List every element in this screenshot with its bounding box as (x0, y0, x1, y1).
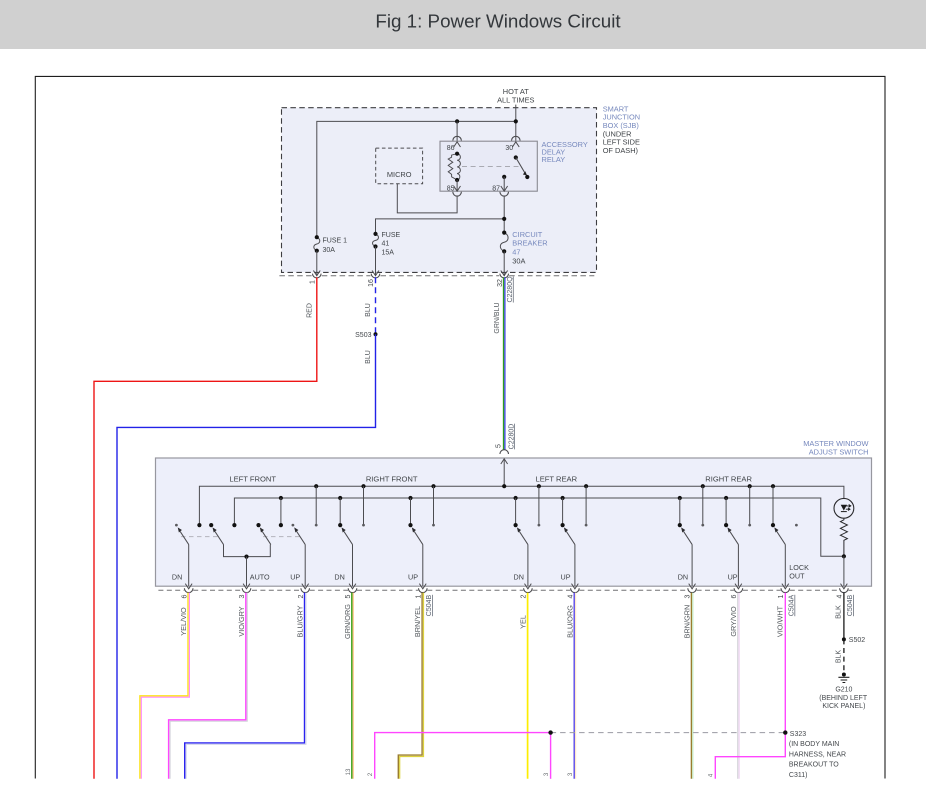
pin 87 arrow (501, 186, 508, 191)
node S323 left (548, 730, 552, 734)
svg-text:RIGHT REAR: RIGHT REAR (705, 475, 752, 484)
node: contact RR DN (678, 523, 682, 527)
svg-text:2: 2 (521, 594, 528, 598)
node: feed junction on upper rail (502, 484, 506, 488)
svg-text:Fig 1: Power Windows Circuit: Fig 1: Power Windows Circuit (375, 10, 621, 31)
svg-text:3: 3 (685, 594, 692, 598)
svg-text:16: 16 (368, 279, 375, 287)
wire VIO/GRY (violet + grey stripe) (169, 593, 246, 779)
switch blade LF AUTO 2 (260, 527, 271, 544)
circuit breaker label (512, 230, 547, 265)
relay coil resistor (left zigzag) (448, 154, 457, 180)
circuit breaker 47 element (500, 233, 508, 252)
node: lower rail junction RR UP (724, 496, 728, 500)
splice S503 (374, 332, 378, 336)
svg-text:MICRO: MICRO (387, 170, 412, 179)
wire: fuse 1 to connector pin 1 (316, 251, 318, 276)
wire: branch from bus to relay pin 86 (456, 121, 458, 153)
svg-text:YEL/VIO: YEL/VIO (179, 607, 188, 636)
node: fuse 1 top (315, 235, 319, 239)
svg-text:C504B: C504B (847, 594, 854, 616)
node: open contact RF3 (432, 524, 435, 527)
relay blade end node (525, 175, 529, 179)
svg-text:CIRCUIT: CIRCUIT (512, 230, 542, 239)
wire: dropper lower rail RR UP contact (725, 498, 727, 525)
svg-text:GRN/BLU: GRN/BLU (494, 302, 501, 333)
output wire RR DN (691, 545, 693, 587)
switch blade RF UP (412, 527, 423, 544)
connector arcs at master switch bottom (184, 588, 193, 592)
svg-text:6: 6 (181, 594, 188, 598)
wire BRN/YEL (brown + yellow stripe) (398, 593, 422, 779)
svg-text:FUSE 1: FUSE 1 (323, 238, 348, 245)
node: lower rail junction RF UP (408, 496, 412, 500)
node: lower rail junction LR DN (514, 496, 518, 500)
mechanical link dashes LF (181, 536, 219, 538)
output wire LF DN (188, 545, 190, 587)
output wire AUTO (246, 557, 248, 587)
output wire LR UP (574, 545, 576, 587)
node: fuse 41 bottom (373, 244, 377, 248)
relay coil winding (right arcs) (457, 154, 460, 180)
diagram frame border (35, 76, 885, 778)
svg-text:5: 5 (345, 594, 352, 598)
node: upper rail junction RF2 (361, 484, 365, 488)
relay U1 box (440, 141, 537, 191)
wire: SJB internal supply bus (317, 121, 516, 237)
svg-text:ALL TIMES: ALL TIMES (497, 96, 534, 105)
power label HOT AT ALL TIMES (497, 87, 534, 104)
relay mechanical dashed link (462, 166, 519, 168)
wire GRN/ORG (green + orange stripe) (351, 593, 353, 779)
svg-text:DN: DN (514, 572, 524, 581)
master switch entry arc (500, 450, 509, 454)
fuse 1 element (314, 237, 320, 251)
wire: branch to fuse 41 (376, 219, 505, 234)
connector pin 16 arc (371, 274, 380, 278)
svg-text:GRY/VIO: GRY/VIO (729, 606, 738, 637)
svg-text:RIGHT FRONT: RIGHT FRONT (366, 475, 418, 484)
splice S502 (842, 637, 846, 641)
smart junction box (SJB) dashed enclosure (282, 108, 597, 273)
svg-text:2: 2 (298, 594, 305, 598)
wire: upper rail (199, 486, 844, 525)
node: upper rail junction RR1 (701, 484, 705, 488)
node: fuse 1 bottom (315, 249, 319, 253)
node: branch junction on pin87 wire (502, 217, 506, 221)
node: open contact RF1 (315, 524, 318, 527)
wire GRN/BLU: breaker to master switch (503, 277, 505, 450)
svg-text:30A: 30A (323, 247, 336, 254)
master switch entry arrow (501, 459, 508, 464)
node: coil bottom (455, 178, 459, 182)
connector pin 1 arrow (313, 271, 320, 276)
svg-text:1: 1 (778, 594, 785, 598)
wire: dropper upper rail lockout contact (772, 486, 774, 525)
node: lower rail junction RF DN (338, 496, 342, 500)
connector pin 16 arrow (372, 271, 379, 276)
relay label (542, 140, 588, 164)
svg-text:LEFT FRONT: LEFT FRONT (229, 475, 276, 484)
wire YEL/VIO (yellow + violet stripe) (140, 593, 188, 779)
wire: pin 87 contact to box edge (503, 177, 505, 191)
svg-text:C311): C311) (789, 772, 808, 779)
output wire LR DN (527, 545, 529, 587)
svg-text:13: 13 (346, 768, 352, 775)
node: contact LF AUTO 2 (256, 523, 260, 527)
svg-text:C2280Q: C2280Q (507, 276, 514, 303)
svg-text:UP: UP (290, 572, 300, 581)
node: lower rail junction LF (279, 496, 283, 500)
wire: feed into upper rail (503, 459, 505, 486)
svg-text:FUSE: FUSE (382, 232, 401, 239)
relay switch pivot node (pin 30) (514, 155, 518, 159)
fuse 41 label (382, 232, 401, 257)
wire YEL (527, 593, 529, 779)
svg-text:HARNESS, NEAR: HARNESS, NEAR (789, 751, 846, 758)
wire BLU/GRY (blue + grey stripe) (185, 593, 305, 779)
svg-text:5: 5 (495, 444, 502, 448)
wire: relay pin 87 down with branch to fuse 41 (503, 196, 505, 233)
splice S323 dashed link (551, 732, 786, 734)
svg-text:15A: 15A (382, 249, 395, 256)
wire BLU/ORG (blue + orange stripe) (573, 593, 575, 779)
SJB label (603, 104, 640, 154)
svg-text:BLU: BLU (365, 303, 372, 317)
output wire RF UP (422, 545, 424, 587)
node: upper rail junction lockout (771, 484, 775, 488)
node: upper rail junction RR2 (748, 484, 752, 488)
output wire RR UP (737, 545, 739, 587)
svg-text:BRN/GRN: BRN/GRN (683, 605, 692, 639)
wire GRY/VIO (grey + violet stripe) (737, 593, 739, 779)
svg-text:1: 1 (415, 594, 422, 598)
pin 30 arrow (512, 142, 519, 147)
svg-text:DN: DN (678, 572, 688, 581)
svg-text:BLK: BLK (836, 650, 843, 664)
svg-text:30: 30 (505, 145, 513, 152)
svg-text:87: 87 (492, 185, 500, 192)
svg-text:BLU: BLU (365, 350, 372, 364)
node: bus junction at pin30 feed (514, 119, 518, 123)
svg-text:LEFT REAR: LEFT REAR (535, 475, 577, 484)
wire: lower rail (234, 498, 844, 556)
switch blade LOCKOUT (774, 527, 785, 544)
svg-text:41: 41 (382, 241, 390, 248)
wire: dropper lower rail LR UP contact (562, 498, 564, 525)
pin 85 arrow (454, 186, 461, 191)
node: contact LOCKOUT (771, 523, 775, 527)
node: open contact RF2 (362, 524, 365, 527)
svg-text:32: 32 (497, 279, 504, 287)
svg-text:47: 47 (512, 248, 520, 257)
svg-text:C504B: C504B (426, 594, 433, 616)
node: AUTO centre tap (244, 555, 248, 559)
svg-text:BLK: BLK (834, 605, 843, 619)
svg-text:LOCK: LOCK (789, 563, 809, 572)
node: contact LF rail-end 2 (232, 523, 236, 527)
node: contact LF DN rail-end (197, 523, 201, 527)
svg-text:4: 4 (568, 594, 575, 598)
svg-text:G210: G210 (835, 686, 852, 693)
svg-text:BLU/ORG: BLU/ORG (565, 605, 574, 638)
resistor below LED (840, 518, 847, 556)
wire: dropper lower rail LF contact (280, 498, 282, 525)
node: lamp return junction (842, 554, 846, 558)
svg-text:86: 86 (447, 145, 455, 152)
node: bus junction at pin86 branch (455, 119, 459, 123)
svg-text:DN: DN (334, 572, 344, 581)
node: contact LF AUTO 1 (209, 523, 213, 527)
wire BLU solid to lower left (117, 334, 376, 779)
node: lower rail junction LR UP (561, 496, 565, 500)
wire: dropper upper rail LR2 (585, 486, 587, 525)
svg-text:BLU/GRY: BLU/GRY (296, 605, 305, 637)
wire BLK to S502 (843, 593, 845, 640)
node: open contact LF DN (175, 524, 178, 527)
LED triangle (841, 505, 847, 511)
node: contact RF UP (408, 523, 412, 527)
svg-text:GRN/ORG: GRN/ORG (343, 604, 352, 639)
LED cathode bar (841, 511, 847, 513)
fuse 41 element (373, 234, 379, 247)
output wire LF UP (304, 545, 306, 587)
svg-text:S323: S323 (790, 731, 806, 738)
wire: dropper upper rail RF1 (315, 486, 317, 525)
svg-text:BRN/YEL: BRN/YEL (413, 606, 422, 637)
connector pin 32 arrow (501, 271, 508, 276)
connector pin 32 arc (500, 274, 509, 278)
wire VIO/WHT branch left (375, 733, 551, 779)
node: breaker top (502, 231, 506, 235)
svg-text:C504A: C504A (789, 594, 796, 616)
node: contact RR UP (724, 523, 728, 527)
wire RED: pin 1 to lower left (94, 277, 317, 779)
node: contact LR DN (514, 523, 518, 527)
svg-text:VIO/WHT: VIO/WHT (776, 605, 785, 637)
switch blade RR UP (727, 527, 738, 544)
svg-text:6: 6 (731, 594, 738, 598)
pin 30 connector arc (512, 136, 521, 140)
node: breaker bottom (502, 249, 506, 253)
node: fuse 41 top (373, 232, 377, 236)
wire: dropper lower rail RF UP contact (410, 498, 412, 525)
wire: hot feed from HOT AT ALL TIMES down into SJB (515, 105, 517, 122)
output wire lamp ground (843, 556, 845, 586)
node: contact RF DN (338, 523, 342, 527)
svg-text:S503: S503 (355, 332, 371, 339)
wire: breaker to connector pin 32 (503, 251, 505, 276)
svg-text:UP: UP (728, 572, 738, 581)
wire: micro to relay pin 85 (397, 184, 457, 213)
node: upper rail junction LR1 (537, 484, 541, 488)
LED lamp circle (834, 498, 854, 518)
wire: dropper upper rail RF3 (433, 486, 435, 525)
switch blade LF AUTO 1 (213, 527, 224, 544)
switch blade LF UP (294, 527, 305, 544)
micro module dashed box (376, 148, 423, 184)
wire: dropper upper rail RR2 (749, 486, 751, 525)
svg-text:YEL: YEL (518, 615, 527, 629)
wire: dropper upper rail LR1 (538, 486, 540, 525)
pin 86 connector arc (453, 136, 462, 140)
wire: dropper lower rail RF DN contact (339, 498, 341, 525)
svg-text:OF DASH): OF DASH) (603, 146, 638, 155)
node: open contact RR2 (748, 524, 751, 527)
output wire RF DN (352, 545, 354, 587)
svg-text:3: 3 (239, 594, 246, 598)
wire VIO/WHT with S323 (715, 593, 785, 779)
svg-text:C2280D: C2280D (508, 424, 515, 450)
node: upper rail junction RF3 (431, 484, 435, 488)
master switch bottom connector strip (158, 589, 852, 591)
svg-text:1: 1 (309, 280, 316, 284)
node: open contact LR2 (585, 524, 588, 527)
svg-text:VIO/GRY: VIO/GRY (237, 606, 246, 636)
switch blade LR DN (517, 527, 528, 544)
switch blade RF DN (342, 527, 353, 544)
switch blade RR DN (681, 527, 692, 544)
wire BRN/GRN (brown + green stripe) (690, 593, 692, 779)
LED arrows (846, 505, 851, 508)
wire: pin 85 from coil to box edge (456, 180, 458, 191)
output wire LF AUTO U-link (224, 545, 271, 557)
splice label S323 (789, 731, 846, 779)
ground label G210 (819, 686, 868, 710)
pin 86 arrow (454, 142, 461, 147)
svg-text:AUTO: AUTO (250, 572, 270, 581)
svg-text:ADJUST SWITCH: ADJUST SWITCH (809, 447, 869, 456)
node: coil top (455, 152, 459, 156)
node: contact LF UP feed (279, 523, 283, 527)
svg-text:(BEHIND LEFT: (BEHIND LEFT (819, 695, 868, 702)
relay pin 87 contact node (502, 175, 506, 179)
node: open contact LF UP (292, 524, 295, 527)
switch blade LR UP (564, 527, 575, 544)
node: contact LR UP (561, 523, 565, 527)
svg-text:BREAKOUT TO: BREAKOUT TO (789, 762, 839, 769)
svg-text:KICK PANEL): KICK PANEL) (822, 703, 865, 710)
node: lower rail junction RR DN (678, 496, 682, 500)
svg-text:(IN BODY MAIN: (IN BODY MAIN (789, 741, 839, 748)
header bar (0, 0, 926, 49)
svg-text:UP: UP (408, 572, 418, 581)
node: upper rail junction RF1 (314, 484, 318, 488)
node S323 (783, 730, 787, 734)
svg-text:4: 4 (837, 594, 844, 598)
svg-text:UP: UP (561, 572, 571, 581)
fuse 1 label (323, 238, 348, 254)
svg-text:30A: 30A (512, 256, 525, 265)
ground G210 (842, 673, 846, 677)
connector arrows at master switch bottom (185, 584, 192, 589)
relay switch blade (516, 158, 528, 178)
output wire LOCKOUT (784, 545, 786, 587)
wire: dropper upper rail RR1 (702, 486, 704, 525)
SJB bottom connector strip dashed line (279, 275, 594, 277)
wire VIO/WHT branch down (550, 733, 552, 779)
master switch label (803, 439, 868, 457)
pin 85 connector arc (453, 192, 462, 196)
svg-text:RELAY: RELAY (542, 155, 566, 164)
node: open contact LR1 (538, 524, 541, 527)
relay blade arrowhead (523, 171, 527, 175)
node: upper rail junction LR2 (584, 484, 588, 488)
wire: fuse 41 to connector pin 16 (375, 247, 377, 277)
svg-text:BREAKER: BREAKER (512, 239, 547, 248)
svg-text:DN: DN (172, 572, 182, 581)
wire: dropper lower rail RR DN contact (679, 498, 681, 525)
wire: dropper upper rail RF2 (363, 486, 365, 525)
svg-text:RED: RED (306, 303, 313, 318)
switch blade LF DN (178, 527, 189, 544)
connector pin 1 arc (313, 274, 322, 278)
svg-text:S502: S502 (849, 637, 865, 644)
master switch box (156, 458, 872, 586)
wire: dropper lower rail LR DN contact (515, 498, 517, 525)
node: open contact LOCKOUT (795, 524, 798, 527)
svg-text:OUT: OUT (789, 572, 805, 581)
wire BLU dashed upper segment (375, 277, 377, 334)
pin 87 connector arc (500, 192, 509, 196)
node: open contact RR1 (701, 524, 704, 527)
wire BLK dashed to ground (843, 639, 845, 674)
